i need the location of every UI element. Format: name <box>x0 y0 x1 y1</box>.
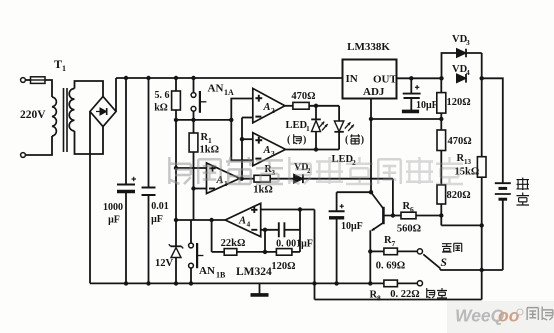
wire battery bottom row <box>440 269 503 271</box>
svg-text:560Ω: 560Ω <box>397 224 421 235</box>
node 10uF-gnd <box>334 281 338 285</box>
wire bridge plus up <box>115 78 117 112</box>
svg-text:A: A <box>216 175 224 186</box>
resistor 120ohm lower <box>276 249 292 256</box>
transformer T1 primary <box>52 97 56 136</box>
svg-text:μF: μF <box>151 214 163 225</box>
resistor 820ohm <box>437 185 446 204</box>
svg-text:10μF: 10μF <box>416 100 438 111</box>
terminal input top <box>21 78 26 83</box>
svg-text:220V: 220V <box>20 109 46 121</box>
svg-text:): ) <box>361 135 364 146</box>
svg-text:2: 2 <box>271 106 275 115</box>
node emitter-R7 <box>368 249 372 253</box>
push button AN1A <box>193 78 195 93</box>
wire A3 plus row <box>242 138 253 140</box>
node R13-chain <box>480 223 484 227</box>
wire top rail <box>116 77 343 79</box>
svg-text:0. 22Ω: 0. 22Ω <box>390 289 419 300</box>
node rail-0.01uF <box>146 76 150 80</box>
svg-text:1A: 1A <box>224 88 234 97</box>
wire 22k drop <box>211 220 213 252</box>
wire secondary bottom to bridge <box>75 127 104 154</box>
node 22k-120 <box>263 250 267 254</box>
battery cells <box>495 182 511 184</box>
svg-text:1: 1 <box>62 64 66 73</box>
svg-text:0.01: 0.01 <box>151 201 169 212</box>
resistor 22kohm <box>212 251 225 253</box>
wire A1out feedback column <box>241 118 243 179</box>
svg-text:3: 3 <box>271 149 275 158</box>
svg-text:ADJ: ADJ <box>363 86 385 98</box>
wire ground rail <box>90 282 384 284</box>
svg-text:0. 69Ω: 0. 69Ω <box>376 261 405 272</box>
node emitter-gnd <box>368 281 372 285</box>
node A4minus <box>263 228 267 232</box>
svg-text:kΩ: kΩ <box>154 103 168 114</box>
wire button column up <box>231 99 253 120</box>
svg-text:μF: μF <box>108 215 120 226</box>
zener diode 12V <box>171 245 182 247</box>
push button AN1B <box>190 220 192 243</box>
wire LED top row <box>309 105 339 107</box>
svg-text:22kΩ: 22kΩ <box>221 238 246 249</box>
wire emitter down <box>369 230 371 283</box>
op-amp A2 <box>253 88 285 122</box>
node LED1 top <box>314 104 318 108</box>
LED1 green <box>315 106 317 119</box>
wire VD3 down <box>481 53 483 78</box>
svg-text:T: T <box>54 57 62 71</box>
node OUT-VD <box>439 76 443 80</box>
resistor R7 0.69ohm <box>370 250 384 252</box>
bridge rectifier <box>90 96 116 126</box>
svg-text:1kΩ: 1kΩ <box>200 145 220 156</box>
label normal <box>442 244 452 252</box>
node OUT-10uF <box>409 76 413 80</box>
resistor R6 560ohm <box>393 215 401 217</box>
wire <box>25 136 52 155</box>
svg-text:4: 4 <box>466 68 470 77</box>
resistor 470ohm <box>293 102 309 109</box>
node 0.01uF-gnd <box>146 281 150 285</box>
svg-text:S: S <box>441 257 447 269</box>
svg-text:820Ω: 820Ω <box>447 190 471 201</box>
wire A1 output <box>240 178 254 180</box>
svg-text:LM338K: LM338K <box>347 41 390 53</box>
svg-text:120Ω: 120Ω <box>271 261 295 272</box>
diode VD2 <box>294 174 303 183</box>
wire reference column <box>175 120 177 246</box>
node base-R6 <box>391 213 395 217</box>
resistor R3 1kohm <box>254 175 270 182</box>
wire bridge minus down <box>89 112 91 284</box>
label fast charge <box>427 288 435 298</box>
op-amp A1 <box>207 163 240 194</box>
svg-text:A: A <box>238 216 246 227</box>
wire sense column <box>314 210 316 300</box>
wire A4 output row <box>176 219 225 221</box>
node A4out-22k <box>209 218 213 222</box>
svg-text:8: 8 <box>377 294 381 303</box>
node VD cathodes <box>480 76 484 80</box>
svg-text:1: 1 <box>306 124 310 133</box>
resistor R13 15kohm <box>481 78 483 156</box>
wire A4minus to 22k row <box>264 230 266 252</box>
diode VD4 <box>457 74 466 83</box>
node ref-A4row <box>174 218 178 222</box>
svg-text:1000: 1000 <box>103 202 123 213</box>
wire ADJ column to transistor <box>370 119 372 192</box>
wire A1 plus input <box>176 167 207 169</box>
svg-text:2: 2 <box>352 158 356 167</box>
wire chain bottom <box>440 204 442 225</box>
node R13-battery <box>480 268 484 272</box>
svg-text:A: A <box>263 102 271 113</box>
wire A1 minus input <box>194 188 207 190</box>
capacitor 0.01uF <box>148 78 150 188</box>
wire LED bottom row / A3 output <box>286 149 340 151</box>
node sense-gnd <box>312 281 316 285</box>
svg-text:6: 6 <box>410 205 414 214</box>
transformer T1 secondary <box>69 89 74 131</box>
node ref-A1plus <box>174 166 178 170</box>
wire collector row <box>337 191 371 193</box>
wire OUT <box>397 77 442 79</box>
node chain-ADJ <box>439 117 443 121</box>
node 1000uF-gnd <box>124 281 128 285</box>
node rail-1000uF <box>124 76 128 80</box>
node A3plus <box>240 137 244 141</box>
svg-text:LM324: LM324 <box>236 266 272 278</box>
diode VD3 <box>442 53 482 78</box>
wire battery plus <box>482 78 503 183</box>
wire <box>440 151 442 185</box>
ground symbol <box>259 283 261 293</box>
node rail-5.6k <box>174 76 178 80</box>
svg-text:470Ω: 470Ω <box>448 136 472 147</box>
wire base column down <box>392 179 394 216</box>
node button-R1 <box>191 118 195 122</box>
wire secondary top to bridge <box>75 81 104 96</box>
op-amp A3 <box>253 133 286 166</box>
svg-text:7: 7 <box>392 239 396 248</box>
transformer core <box>63 88 65 152</box>
wire <box>270 178 294 180</box>
svg-text:): ) <box>303 135 306 146</box>
regulator LM338K <box>343 60 397 99</box>
wire ADJ row <box>371 118 441 120</box>
watermark <box>169 157 190 184</box>
svg-text:A: A <box>263 145 271 156</box>
node rail-AN1A <box>191 76 195 80</box>
label battery <box>517 178 530 191</box>
wire A3 minus row <box>231 120 253 160</box>
node LED1 bottom <box>314 147 318 151</box>
svg-text:AN: AN <box>199 265 215 277</box>
wire A4 minus <box>261 229 279 231</box>
transistor VT <box>382 207 385 224</box>
switch S blade <box>423 254 440 268</box>
terminal input bottom <box>21 153 26 158</box>
resistor 120ohm <box>440 78 442 92</box>
wire A2 minus row <box>242 117 253 119</box>
svg-text:470Ω: 470Ω <box>291 91 315 102</box>
wire battery minus <box>502 199 504 270</box>
capacitor 1000uF <box>125 78 127 185</box>
node AN1B-gnd <box>189 281 193 285</box>
node 5.6k-row <box>174 118 178 122</box>
capacitor 10uF timing <box>336 192 338 211</box>
resistor R1 1kohm <box>193 120 195 133</box>
svg-text:1kΩ: 1kΩ <box>253 185 273 196</box>
node R1-A1minus <box>191 186 195 190</box>
svg-text:1B: 1B <box>216 271 226 280</box>
node A4plus <box>298 207 302 211</box>
resistor 5.6kohm <box>175 78 177 91</box>
node collector <box>369 190 373 194</box>
watermark weeqoo <box>447 301 554 333</box>
LED2 red <box>338 106 340 121</box>
wire VD2 to base column <box>303 178 393 180</box>
resistor 470ohm chain <box>440 113 442 130</box>
node ADJ <box>369 117 373 121</box>
node zener-gnd <box>174 281 178 285</box>
wire cap junction column <box>299 210 301 252</box>
wire lower rail <box>315 299 482 301</box>
svg-text:4: 4 <box>247 220 251 229</box>
svg-text:OUT: OUT <box>373 74 398 86</box>
svg-text:120Ω: 120Ω <box>447 97 471 108</box>
wire <box>45 80 52 97</box>
svg-text:12V: 12V <box>155 258 174 269</box>
node A1out <box>239 177 243 181</box>
node buttonrow-A2 <box>229 118 233 122</box>
op-amp A4 <box>225 203 261 236</box>
svg-text:LED: LED <box>286 120 308 131</box>
wire A4 plus row <box>261 209 315 211</box>
svg-text:IN: IN <box>346 73 358 85</box>
wire button row <box>176 119 231 121</box>
wire A2 output <box>285 105 293 107</box>
svg-text:oo: oo <box>498 306 520 326</box>
capacitor 0.001uF <box>278 222 280 237</box>
resistor R8 0.22ohm <box>384 280 398 287</box>
node chain-R6 <box>439 213 443 217</box>
svg-text:3: 3 <box>466 38 470 47</box>
svg-text:13: 13 <box>464 158 472 166</box>
wire ADJ <box>370 99 372 120</box>
svg-text:10μF: 10μF <box>341 221 363 232</box>
capacitor 10uF output <box>410 78 412 93</box>
svg-text:AN: AN <box>208 83 224 95</box>
svg-text:5. 6: 5. 6 <box>155 90 170 101</box>
wire chain bottom row <box>441 224 481 226</box>
fuse FU <box>31 77 46 84</box>
